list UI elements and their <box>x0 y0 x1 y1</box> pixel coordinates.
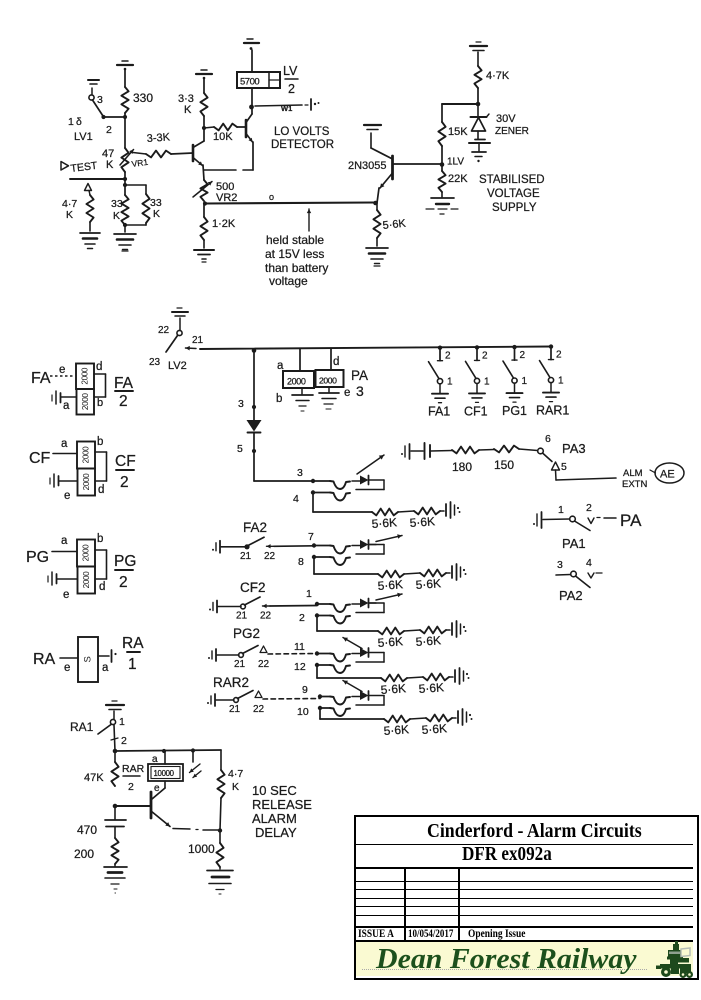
svg-text:2N3055: 2N3055 <box>348 160 387 172</box>
resistor 5.6K a RAR-b <box>384 716 410 723</box>
svg-text:15K: 15K <box>448 126 468 138</box>
resistor 33K right <box>142 194 149 223</box>
title row DFR ex092a <box>462 844 552 864</box>
svg-text:RAR1: RAR1 <box>536 404 569 418</box>
bottom node 8 <box>312 555 316 559</box>
svg-text:21: 21 <box>229 704 241 715</box>
resistor 5.6K a PG-b <box>381 675 407 682</box>
svg-text:2: 2 <box>520 350 526 361</box>
svg-text:21: 21 <box>240 551 252 562</box>
resistor 15K <box>438 122 445 146</box>
return loop FA-b <box>369 544 385 546</box>
svg-text:2: 2 <box>106 124 112 136</box>
wire and node above Q1 <box>203 116 205 128</box>
svg-text:PG: PG <box>114 553 136 570</box>
svg-text:2: 2 <box>120 474 129 491</box>
switch LV1 contact 3 <box>89 95 94 100</box>
svg-text:2000: 2000 <box>82 544 91 561</box>
svg-text:d: d <box>98 484 104 496</box>
svg-text:e: e <box>64 490 70 502</box>
return loop CF-b <box>369 602 385 604</box>
resistor 22K <box>438 171 445 192</box>
svg-text:10: 10 <box>297 706 309 718</box>
svg-text:1LV: 1LV <box>447 157 464 168</box>
svg-text:d: d <box>333 356 339 368</box>
svg-text:than battery: than battery <box>265 261 328 275</box>
svg-text:W1: W1 <box>281 104 292 113</box>
svg-text:d: d <box>96 361 102 373</box>
svg-text:9: 9 <box>302 684 308 696</box>
relay contact group CF-b top node 1 <box>315 602 319 606</box>
switch PA3 contact 6 <box>519 449 538 451</box>
svg-text:2000: 2000 <box>82 473 91 490</box>
svg-text:10 SEC: 10 SEC <box>252 783 297 798</box>
pointer arrow on bus <box>308 209 310 231</box>
switch LV2 contact 22 <box>177 330 182 335</box>
CF right loop <box>95 451 107 453</box>
bottom node 10 <box>318 706 322 710</box>
diode PG-b <box>360 648 369 657</box>
svg-text:e: e <box>344 387 350 399</box>
svg-text:4·7K: 4·7K <box>486 70 510 82</box>
switch PA1 <box>543 518 570 521</box>
resistor 5.6K b PG-b <box>423 674 449 681</box>
svg-text:FA: FA <box>114 375 134 392</box>
actuate arrow CF-b <box>369 602 377 604</box>
ground top of 3.3K <box>201 69 207 71</box>
resistor 5.6K b CF-b <box>420 627 446 634</box>
bottom node 12 <box>315 663 319 667</box>
actuate arrow PG-b <box>343 638 362 649</box>
svg-text:5·6K: 5·6K <box>415 576 441 592</box>
ground above 2N3055 <box>364 124 381 126</box>
capacitor 470 <box>114 806 116 819</box>
potentiometer VR2 500 <box>200 180 207 201</box>
PG right loop <box>95 549 107 551</box>
svg-text:30V: 30V <box>496 113 516 125</box>
ground under 22K <box>441 192 443 197</box>
svg-text:RELEASE: RELEASE <box>252 797 312 812</box>
svg-text:6: 6 <box>545 433 551 445</box>
resistor 4.7K delay <box>220 750 222 770</box>
battery ground under 200 <box>114 864 116 866</box>
wire to zener node <box>477 88 479 104</box>
svg-text:8: 8 <box>298 556 304 568</box>
svg-text:δ: δ <box>76 116 82 128</box>
svg-text:5·6K: 5·6K <box>377 634 403 650</box>
svg-text:K: K <box>66 209 73 221</box>
svg-text:PG: PG <box>26 549 49 566</box>
relay coil FA lower <box>77 389 95 415</box>
svg-text:2: 2 <box>586 502 592 514</box>
svg-text:PA1: PA1 <box>562 536 586 551</box>
svg-text:5·6K: 5·6K <box>382 218 407 232</box>
resistor 150 <box>494 446 519 453</box>
svg-text:7: 7 <box>308 531 314 543</box>
svg-text:SUPPLY: SUPPLY <box>492 202 537 214</box>
relay contact group PA-a top node 3 <box>311 479 315 483</box>
svg-text:b: b <box>276 393 282 405</box>
Dean Forest Railway banner text <box>376 945 637 974</box>
FA right loop <box>94 373 106 375</box>
relay coil LV 5700 <box>251 88 253 107</box>
resistor 4.7K supply <box>474 66 481 88</box>
svg-text:EXTN: EXTN <box>622 479 647 490</box>
diode CF-b <box>360 599 369 608</box>
transistor Q2 <box>245 120 248 137</box>
bus wire to 2N3055 emitter <box>205 203 374 204</box>
switch PG1 <box>512 345 516 349</box>
svg-text:PG1: PG1 <box>502 404 527 418</box>
dashed emitter wire <box>173 828 190 831</box>
svg-text:3: 3 <box>238 398 244 410</box>
svg-text:voltage: voltage <box>269 274 308 288</box>
title block frame <box>354 815 699 980</box>
svg-text:2: 2 <box>119 574 128 591</box>
battery ground under 1000 <box>219 867 221 869</box>
relay box RA <box>78 637 98 682</box>
switch CF1 <box>475 345 479 349</box>
diode FA-b <box>360 540 369 549</box>
svg-text:22K: 22K <box>448 173 468 185</box>
svg-text:5·6K: 5·6K <box>380 681 406 697</box>
potentiometer VR1 47K <box>121 148 128 172</box>
svg-text:22: 22 <box>258 659 270 670</box>
svg-text:22: 22 <box>260 611 272 622</box>
switch FA1 <box>438 346 442 350</box>
svg-text:5·6K: 5·6K <box>371 515 397 531</box>
zener diode 30V <box>477 104 479 117</box>
svg-text:b: b <box>97 436 103 448</box>
svg-text:2000: 2000 <box>81 393 90 410</box>
svg-text:2: 2 <box>121 735 127 747</box>
node 2 junction LV1 <box>101 115 105 119</box>
ground above LV2 <box>172 311 188 313</box>
relay coil PG lower <box>78 567 96 594</box>
svg-text:21: 21 <box>234 659 246 670</box>
svg-text:2000: 2000 <box>319 376 337 386</box>
resistor 180 <box>452 447 479 454</box>
capacitor feed PA3 row <box>404 446 406 457</box>
svg-text:e: e <box>59 364 65 376</box>
svg-text:2: 2 <box>556 350 562 361</box>
ground under 1.2K <box>203 240 205 248</box>
svg-text:4·7: 4·7 <box>228 768 243 780</box>
svg-text:4: 4 <box>293 493 299 505</box>
svg-text:3-3K: 3-3K <box>146 131 171 145</box>
svg-text:5·6K: 5·6K <box>377 577 403 593</box>
capacitor FA <box>55 391 57 404</box>
capacitor feed RAR2 <box>210 696 212 704</box>
svg-text:STABILISED: STABILISED <box>479 174 545 186</box>
capacitor feed FA2 <box>215 543 217 551</box>
svg-text:3: 3 <box>356 383 364 399</box>
svg-text:RAR2: RAR2 <box>213 675 249 690</box>
svg-text:ZENER: ZENER <box>495 126 529 137</box>
title row Cinderford <box>427 821 642 841</box>
wire to right 33K top <box>123 183 127 187</box>
revision table lines <box>404 867 406 941</box>
issue row <box>358 929 394 941</box>
svg-text:1: 1 <box>306 588 312 600</box>
node under VR2 <box>203 201 207 205</box>
switch RAR2 <box>234 698 239 703</box>
wire rail to diode <box>253 351 255 421</box>
svg-text:DETECTOR: DETECTOR <box>271 139 334 151</box>
wire to resistor chain PA-a <box>312 493 314 513</box>
svg-text:5·6K: 5·6K <box>421 721 447 737</box>
svg-text:RAR: RAR <box>122 763 145 775</box>
svg-text:VR2: VR2 <box>216 192 237 204</box>
RA1 top rail <box>113 749 118 754</box>
svg-text:CF1: CF1 <box>464 404 488 418</box>
svg-text:5: 5 <box>561 461 567 473</box>
wire to resistor chain PG-b <box>316 665 318 678</box>
switch PA3 arm to 5 <box>543 453 553 462</box>
svg-text:5·6K: 5·6K <box>415 633 441 649</box>
capacitor PG <box>51 572 53 585</box>
branch triangle to 4.7K <box>85 184 92 191</box>
svg-text:K: K <box>232 781 239 793</box>
switch LV2 arm <box>166 336 178 353</box>
junction at relay LV coil <box>249 105 254 110</box>
svg-text:180: 180 <box>452 460 472 474</box>
capacitor end CF-b <box>451 623 453 635</box>
capacitor feed CF2 <box>212 603 214 611</box>
svg-text:AE: AE <box>660 469 675 481</box>
svg-text:b: b <box>97 533 103 545</box>
resistor 330 <box>121 87 128 113</box>
svg-text:150: 150 <box>494 458 514 472</box>
svg-text:TEST: TEST <box>70 160 99 175</box>
node 5 <box>253 433 255 482</box>
svg-text:CF: CF <box>115 453 136 470</box>
svg-text:LV: LV <box>283 64 298 78</box>
relay contact group PG-b top node 11 <box>315 651 319 655</box>
yellow banner <box>356 942 693 976</box>
actuate arrow RAR-b <box>343 681 362 692</box>
svg-text:11: 11 <box>294 641 305 653</box>
svg-text:2: 2 <box>128 781 134 793</box>
svg-text:3: 3 <box>557 559 563 571</box>
svg-text:FA1: FA1 <box>428 405 450 419</box>
svg-text:47K: 47K <box>84 772 104 784</box>
capacitor end RAR-b <box>457 711 459 723</box>
actuate arrow PA-a <box>357 455 384 474</box>
wire to resistor chain FA-b <box>313 557 315 574</box>
svg-text:FA2: FA2 <box>243 520 267 535</box>
capacitor end PG-b <box>454 670 456 682</box>
svg-text:21: 21 <box>236 611 248 622</box>
svg-text:K: K <box>184 104 192 116</box>
battery ground under 4.7K <box>89 222 91 231</box>
bottom node 2 <box>315 613 319 617</box>
relay coil CF upper <box>77 442 95 469</box>
transistor Q1 <box>192 145 195 161</box>
ground above relay LV <box>251 50 253 72</box>
svg-text:5·6K: 5·6K <box>418 680 444 696</box>
svg-text:a: a <box>277 360 284 372</box>
svg-text:2: 2 <box>482 350 488 361</box>
svg-text:1: 1 <box>447 377 453 388</box>
resistor 3.3K <box>200 93 207 116</box>
switch PG2 <box>239 653 244 658</box>
svg-text:S: S <box>83 656 94 662</box>
light arrows <box>192 751 194 763</box>
svg-text:K: K <box>153 208 160 220</box>
svg-text:PA: PA <box>351 368 368 383</box>
svg-text:K: K <box>106 159 114 171</box>
svg-text:o: o <box>269 192 274 202</box>
wire to rail with tick 2 <box>114 725 115 751</box>
relay coil PG upper <box>77 540 95 567</box>
svg-text:CF: CF <box>29 450 51 467</box>
svg-text:PA2: PA2 <box>559 588 583 603</box>
ground top stabilised supply <box>470 45 487 47</box>
resistor 5.6K b FA-b <box>420 570 446 577</box>
svg-text:1000: 1000 <box>188 842 215 856</box>
svg-text:ALM: ALM <box>623 468 643 479</box>
svg-text:a: a <box>102 662 109 674</box>
svg-text:5700: 5700 <box>240 77 259 88</box>
svg-text:VR1: VR1 <box>131 157 149 169</box>
svg-text:LV2: LV2 <box>168 360 187 372</box>
wire to contact group 1 <box>254 480 313 482</box>
svg-text:2000: 2000 <box>82 446 91 463</box>
svg-text:1: 1 <box>68 116 74 128</box>
svg-text:5·6K: 5·6K <box>383 722 409 738</box>
svg-text:CF2: CF2 <box>240 580 266 595</box>
svg-text:DELAY: DELAY <box>255 825 297 840</box>
resistor 33K left <box>121 195 128 225</box>
svg-text:2: 2 <box>119 393 128 410</box>
relay coil FA upper <box>76 364 94 390</box>
svg-text:22: 22 <box>253 704 265 715</box>
svg-text:10000: 10000 <box>154 769 175 778</box>
svg-text:PA: PA <box>620 511 642 530</box>
diode RAR-b <box>360 691 369 700</box>
capacitor feed PG2 <box>211 651 213 659</box>
resistor 1000 <box>219 831 221 844</box>
svg-text:1·2K: 1·2K <box>212 218 236 230</box>
svg-text:b: b <box>97 397 103 409</box>
svg-text:4: 4 <box>586 557 592 569</box>
diode PA-a <box>360 476 369 485</box>
relay coil CF lower <box>78 469 96 496</box>
svg-text:1: 1 <box>522 376 528 387</box>
bottom tie of 33K pair <box>145 223 147 225</box>
ground under 33K pair <box>114 233 136 235</box>
opto relay box 10000 <box>164 751 166 764</box>
ground for LV1 switch <box>88 79 99 81</box>
svg-text:a: a <box>61 438 68 450</box>
svg-text:2000: 2000 <box>287 377 306 387</box>
svg-text:LO VOLTS: LO VOLTS <box>274 126 330 138</box>
terminal AE <box>655 463 684 483</box>
svg-text:a: a <box>63 400 70 412</box>
wire TEST input <box>70 178 125 180</box>
svg-text:2: 2 <box>445 351 451 362</box>
dotted underline <box>362 968 647 970</box>
svg-text:RA1: RA1 <box>70 720 94 734</box>
svg-text:d: d <box>99 581 105 593</box>
resistor 10K <box>204 127 214 128</box>
transistor Q3 2N3055 <box>391 156 394 179</box>
transistor Q4 <box>150 792 153 818</box>
svg-text:RA: RA <box>122 635 144 652</box>
svg-text:200: 200 <box>74 847 94 861</box>
resistor 5.6K a FA-b <box>378 571 404 578</box>
resistor 4.7K left <box>86 195 93 222</box>
return loop RAR-b <box>369 695 385 697</box>
wire to resistor chain CF-b <box>316 616 318 632</box>
svg-text:at 15V less: at 15V less <box>265 247 324 261</box>
switch FA2 <box>244 544 249 549</box>
capacitor feed PA1 <box>536 514 538 526</box>
emitter return wire <box>204 169 236 171</box>
svg-text:1: 1 <box>484 376 490 387</box>
svg-text:K: K <box>113 210 120 222</box>
svg-text:2: 2 <box>299 612 305 624</box>
bottom node 4 <box>311 490 315 494</box>
return loop PA-a <box>369 479 385 481</box>
junction to diode branch <box>252 348 257 353</box>
capacitor CF <box>53 474 55 487</box>
svg-text:3: 3 <box>97 94 103 106</box>
relay contact group FA-b top node 7 <box>312 543 316 547</box>
svg-text:3: 3 <box>297 467 303 479</box>
resistor 5.6K a PA-a <box>372 509 398 516</box>
wire 330 to VR1 <box>124 113 126 148</box>
ground above RA1 <box>106 704 124 706</box>
resistor 5.6K a CF-b <box>378 628 404 635</box>
resistor 200 <box>114 827 116 839</box>
PA relay coil d <box>330 349 332 371</box>
switch LV1 arm <box>93 100 104 116</box>
svg-text:PA3: PA3 <box>562 441 586 456</box>
wiper wire to 3-3K <box>133 153 146 155</box>
resistor 5.6K b PA-a <box>414 508 440 515</box>
wire to ALM EXTN <box>555 470 558 480</box>
svg-text:2000: 2000 <box>82 571 91 588</box>
main rail <box>200 347 551 350</box>
train logo <box>654 941 694 979</box>
capacitor end FA-b <box>451 566 453 578</box>
relay contact group RAR-b top node 9 <box>318 694 322 698</box>
svg-text:FA: FA <box>31 370 51 387</box>
return loop PG-b <box>369 652 385 654</box>
node 1LV <box>441 146 443 171</box>
arrowhead 21 on rail <box>186 347 197 350</box>
svg-text:10K: 10K <box>213 131 233 143</box>
capacitor end PA-a <box>445 504 447 516</box>
svg-text:1: 1 <box>558 376 564 387</box>
svg-text:23: 23 <box>149 357 161 368</box>
svg-text:ALARM: ALARM <box>252 811 297 826</box>
svg-text:VOLTAGE: VOLTAGE <box>487 188 540 200</box>
svg-text:12: 12 <box>294 661 306 673</box>
svg-text:PG2: PG2 <box>233 626 260 641</box>
battery ground under zener <box>475 139 485 141</box>
wire to resistor chain RAR-b <box>319 708 321 719</box>
wire node to 15K <box>442 103 478 105</box>
resistor 47K <box>114 751 116 762</box>
ground top of 330 resistor <box>122 60 128 62</box>
svg-text:22: 22 <box>158 325 170 336</box>
svg-text:21: 21 <box>192 335 204 346</box>
svg-text:470: 470 <box>77 823 97 837</box>
diode D1 <box>247 420 262 432</box>
